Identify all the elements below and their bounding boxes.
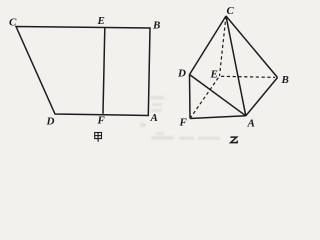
edge D-F (189, 75, 192, 119)
caption yi glyph (230, 137, 237, 143)
figure jia: trapezoid CBAD outline (16, 27, 150, 116)
svg-text:C: C (9, 17, 17, 29)
edge A-B (246, 78, 278, 116)
svg-text:D: D (46, 116, 55, 128)
edge C-B (226, 16, 278, 78)
fold line EF (103, 28, 105, 114)
svg-text:C: C (227, 5, 235, 17)
caption jia glyph (95, 133, 102, 142)
edge D-A (190, 75, 246, 116)
edge C-D (190, 16, 227, 75)
svg-text:F: F (179, 117, 188, 129)
svg-text:E: E (97, 15, 105, 27)
svg-text:A: A (150, 112, 158, 124)
hidden edge E-B dashed (221, 76, 275, 77)
svg-text:F: F (97, 115, 106, 127)
edge F-A (190, 116, 246, 119)
hidden edge F-E dashed (190, 76, 220, 119)
svg-text:B: B (281, 74, 289, 86)
hidden edge C-E dashed (220, 16, 227, 76)
svg-text:E: E (210, 69, 218, 81)
svg-text:B: B (152, 20, 160, 32)
edge C-A (226, 16, 246, 116)
svg-text:A: A (247, 118, 255, 130)
svg-text:D: D (177, 68, 186, 80)
